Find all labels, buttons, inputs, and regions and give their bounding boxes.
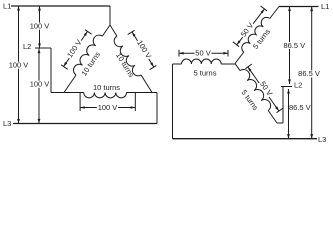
svg-text:L1: L1 [321, 2, 329, 11]
svg-text:86.5 V: 86.5 V [289, 103, 311, 112]
svg-text:L2: L2 [294, 81, 302, 90]
svg-text:L1: L1 [3, 2, 11, 11]
svg-text:5 turns: 5 turns [194, 69, 217, 78]
svg-text:10 turns: 10 turns [93, 83, 120, 92]
svg-text:L3: L3 [318, 135, 326, 144]
svg-text:L3: L3 [3, 119, 11, 128]
svg-text:100 V: 100 V [9, 61, 29, 70]
svg-text:100 V: 100 V [30, 80, 50, 89]
svg-text:86.5 V: 86.5 V [298, 69, 320, 78]
svg-text:100 V: 100 V [98, 103, 118, 112]
svg-text:50 V: 50 V [195, 49, 210, 58]
svg-text:100 V: 100 V [30, 22, 50, 31]
svg-text:L2: L2 [23, 42, 31, 51]
svg-text:86.5 V: 86.5 V [283, 41, 305, 50]
